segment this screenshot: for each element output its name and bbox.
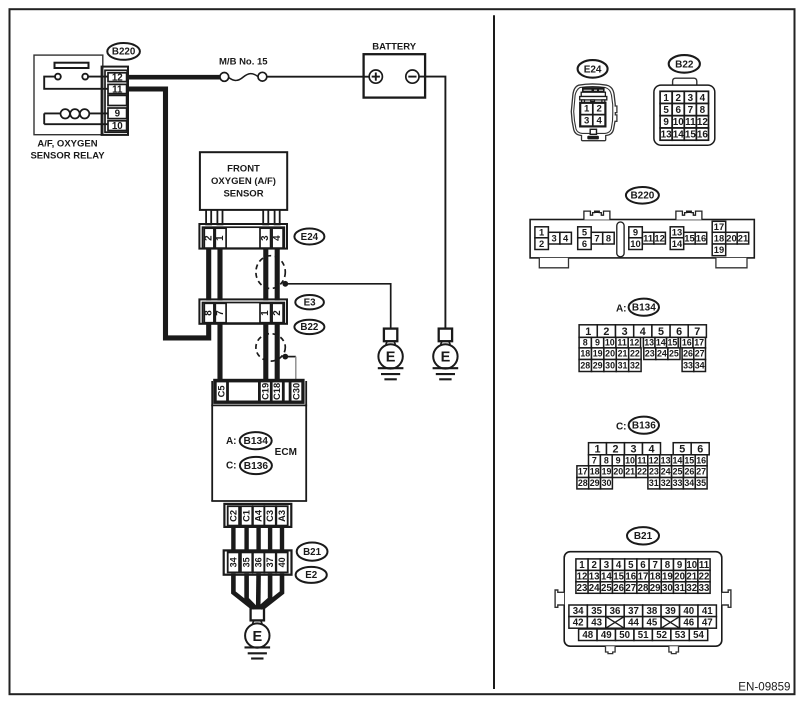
svg-text:13: 13: [661, 129, 672, 140]
svg-text:14: 14: [672, 238, 683, 249]
svg-text:6: 6: [582, 238, 587, 249]
svg-text:17: 17: [638, 571, 649, 582]
wire: B220 pin 12 to fuse (thick): [127, 75, 220, 80]
svg-text:5: 5: [628, 560, 634, 571]
svg-text:37: 37: [265, 557, 275, 567]
ECM box: [211, 381, 307, 501]
svg-text:EN-09859: EN-09859: [738, 680, 790, 693]
svg-text:B220: B220: [630, 191, 654, 202]
svg-text:28: 28: [638, 583, 649, 594]
svg-text:2: 2: [272, 310, 283, 316]
svg-text:C5: C5: [216, 385, 226, 397]
svg-text:30: 30: [602, 478, 612, 488]
svg-text:15: 15: [667, 338, 677, 348]
svg-text:34: 34: [684, 478, 694, 488]
fuse M/B No. 15: [219, 56, 268, 81]
svg-text:3: 3: [260, 235, 271, 241]
svg-text:11: 11: [699, 560, 710, 571]
svg-text:2: 2: [603, 326, 609, 338]
svg-text:3: 3: [584, 115, 589, 126]
svg-text:4: 4: [648, 443, 654, 455]
svg-text:5: 5: [663, 105, 669, 116]
ECM labels A: B134 C: B136 ECM: [226, 436, 237, 447]
svg-text:32: 32: [630, 361, 640, 371]
B22 face pin grid 1-16: [660, 91, 708, 140]
svg-text:27: 27: [695, 349, 705, 359]
svg-text:18: 18: [590, 467, 600, 477]
svg-text:12: 12: [629, 338, 639, 348]
svg-text:28: 28: [580, 361, 590, 371]
relay label: [30, 138, 105, 161]
svg-text:7: 7: [653, 560, 658, 571]
svg-text:11: 11: [685, 117, 696, 128]
svg-text:29: 29: [650, 583, 661, 594]
label C: B136: [616, 422, 627, 433]
svg-text:B22: B22: [300, 322, 319, 333]
svg-text:3: 3: [604, 560, 610, 571]
svg-text:54: 54: [693, 630, 704, 641]
svg-text:21: 21: [625, 467, 635, 477]
connector face B21 body: [555, 552, 731, 654]
svg-text:1: 1: [579, 560, 585, 571]
svg-text:2: 2: [539, 238, 544, 249]
svg-text:1: 1: [215, 235, 226, 241]
svg-text:46: 46: [683, 618, 694, 629]
svg-text:4: 4: [272, 235, 283, 241]
svg-text:44: 44: [628, 618, 639, 629]
svg-text:37: 37: [628, 606, 639, 617]
svg-text:22: 22: [630, 349, 640, 359]
connector label E24 face label: [578, 60, 608, 78]
svg-text:31: 31: [649, 478, 659, 488]
svg-text:FRONT: FRONT: [227, 163, 260, 174]
svg-text:10: 10: [686, 560, 697, 571]
svg-text:22: 22: [699, 571, 710, 582]
svg-text:49: 49: [601, 630, 612, 641]
svg-text:B134: B134: [244, 436, 269, 447]
svg-text:20: 20: [605, 349, 615, 359]
wires: E3/B22 to ECM (thick): [220, 323, 277, 381]
svg-text:8: 8: [604, 455, 609, 465]
wires: ECM to B21/E2 (5 thick): [233, 527, 282, 551]
divider line: [493, 15, 495, 689]
svg-text:13: 13: [644, 338, 654, 348]
svg-text:25: 25: [673, 467, 683, 477]
svg-text:26: 26: [684, 467, 694, 477]
svg-text:11: 11: [637, 455, 646, 465]
svg-text:17: 17: [714, 221, 724, 232]
svg-text:31: 31: [618, 361, 628, 371]
connector label B220: [107, 43, 140, 60]
svg-text:1: 1: [584, 104, 590, 115]
ground E (ECM grounds): [245, 608, 271, 658]
svg-text:24: 24: [657, 349, 667, 359]
relay: A/F oxygen sensor relay: [34, 55, 108, 135]
svg-text:16: 16: [697, 129, 708, 140]
svg-text:18: 18: [650, 571, 661, 582]
svg-text:B136: B136: [244, 461, 269, 472]
svg-text:19: 19: [662, 571, 673, 582]
wire: shield 2 drain to ECM C30: [288, 357, 296, 381]
svg-text:14: 14: [601, 571, 612, 582]
svg-text:35: 35: [696, 478, 706, 488]
svg-text:2: 2: [612, 443, 618, 455]
svg-text:40: 40: [277, 557, 287, 567]
svg-text:A:: A:: [616, 304, 627, 315]
wire: B220 pin 11 down to connector E3/B22 pin 8 (thick): [127, 89, 209, 338]
svg-text:C3: C3: [265, 510, 275, 522]
svg-text:9: 9: [677, 560, 683, 571]
svg-text:5: 5: [658, 326, 664, 338]
svg-text:2: 2: [204, 235, 215, 241]
svg-text:8: 8: [665, 560, 671, 571]
svg-text:51: 51: [638, 630, 649, 641]
svg-text:OXYGEN (A/F): OXYGEN (A/F): [211, 176, 276, 187]
svg-text:6: 6: [697, 443, 703, 455]
svg-text:4: 4: [563, 232, 569, 243]
svg-text:B220: B220: [112, 47, 136, 58]
svg-text:3: 3: [630, 443, 636, 455]
svg-text:43: 43: [591, 618, 602, 629]
svg-text:B21: B21: [634, 531, 653, 542]
svg-text:1: 1: [539, 227, 544, 238]
svg-text:22: 22: [637, 467, 647, 477]
svg-text:ECM: ECM: [275, 447, 297, 458]
svg-text:24: 24: [661, 467, 671, 477]
document number EN-09859: [738, 680, 790, 693]
svg-text:3: 3: [551, 232, 556, 243]
svg-text:E: E: [386, 350, 396, 366]
svg-text:26: 26: [683, 349, 693, 359]
connector face B136 pin grid: [577, 443, 709, 489]
front oxygen (A/F) sensor: [200, 152, 287, 210]
svg-text:12: 12: [697, 117, 708, 128]
svg-text:6: 6: [675, 105, 681, 116]
svg-text:28: 28: [578, 478, 588, 488]
svg-text:3: 3: [622, 326, 628, 338]
svg-text:A:: A:: [226, 436, 237, 447]
svg-text:C:: C:: [226, 461, 237, 472]
svg-text:18: 18: [714, 232, 724, 243]
battery: [364, 42, 426, 98]
svg-text:26: 26: [613, 583, 624, 594]
svg-text:8: 8: [583, 338, 588, 348]
svg-text:M/B No. 15: M/B No. 15: [219, 56, 268, 67]
svg-text:14: 14: [656, 338, 666, 348]
svg-text:47: 47: [702, 618, 713, 629]
svg-text:C18: C18: [272, 383, 282, 400]
svg-text:41: 41: [702, 606, 713, 617]
svg-text:9: 9: [663, 117, 669, 128]
svg-text:1: 1: [594, 443, 600, 455]
svg-text:15: 15: [684, 232, 694, 243]
svg-text:33: 33: [699, 583, 710, 594]
svg-text:E2: E2: [305, 570, 318, 581]
svg-text:29: 29: [593, 361, 603, 371]
svg-text:48: 48: [582, 630, 593, 641]
svg-text:1: 1: [260, 310, 271, 316]
connector label E2: [296, 567, 327, 583]
svg-text:10: 10: [112, 121, 123, 132]
svg-text:11: 11: [617, 338, 626, 348]
svg-text:38: 38: [647, 606, 658, 617]
svg-text:A/F, OXYGEN: A/F, OXYGEN: [37, 138, 97, 149]
svg-text:19: 19: [593, 349, 603, 359]
svg-text:20: 20: [726, 232, 736, 243]
wire stubs sensor to E24: [206, 210, 280, 225]
svg-text:25: 25: [669, 349, 679, 359]
svg-text:13: 13: [672, 227, 682, 238]
svg-text:2: 2: [597, 104, 602, 115]
ECM top connector strip (C5 C19 C18 C30): [214, 380, 303, 403]
svg-text:6: 6: [640, 560, 646, 571]
svg-text:A4: A4: [254, 509, 264, 522]
svg-text:32: 32: [661, 478, 671, 488]
svg-text:35: 35: [242, 557, 252, 567]
svg-text:23: 23: [645, 349, 655, 359]
svg-text:18: 18: [580, 349, 590, 359]
svg-text:E3: E3: [304, 298, 317, 309]
svg-text:E: E: [252, 629, 262, 645]
connector label E24 left: [294, 229, 324, 245]
svg-text:10: 10: [605, 338, 615, 348]
connector label B136 face label: [629, 417, 659, 434]
svg-text:5: 5: [679, 443, 685, 455]
svg-text:36: 36: [254, 557, 264, 567]
svg-text:8: 8: [606, 232, 611, 243]
svg-text:8: 8: [700, 105, 706, 116]
svg-text:32: 32: [686, 583, 697, 594]
svg-text:30: 30: [605, 361, 615, 371]
svg-text:12: 12: [112, 73, 123, 84]
svg-text:E24: E24: [301, 232, 319, 243]
svg-text:20: 20: [613, 467, 623, 477]
B220 face pin cells: [535, 221, 749, 256]
svg-text:7: 7: [215, 310, 226, 316]
ground E (shield): [378, 329, 404, 380]
connector face B220 body: [530, 211, 754, 268]
svg-text:19: 19: [602, 467, 612, 477]
E24 face pin grid 1 2 / 3 4: [580, 103, 605, 127]
E24 face bottom tab: [587, 129, 599, 139]
svg-text:36: 36: [610, 606, 621, 617]
svg-text:15: 15: [613, 571, 624, 582]
svg-text:10: 10: [630, 238, 640, 249]
svg-text:16: 16: [696, 455, 706, 465]
shield (twisted pair) dashed oval 1: [256, 256, 288, 289]
svg-text:10: 10: [625, 455, 635, 465]
wires: E24 to E3/B22 (4 thick): [209, 249, 278, 301]
svg-text:35: 35: [591, 606, 602, 617]
connector label B21 left: [297, 543, 328, 561]
svg-text:34: 34: [573, 606, 584, 617]
svg-text:34: 34: [228, 557, 238, 567]
svg-text:21: 21: [738, 232, 748, 243]
svg-text:13: 13: [661, 455, 671, 465]
wire: battery minus to ground: [419, 77, 445, 329]
connector label B136 ecm: [240, 457, 272, 474]
svg-text:B134: B134: [632, 303, 656, 314]
svg-text:7: 7: [592, 455, 597, 465]
svg-text:7: 7: [594, 232, 599, 243]
wire: fuse to battery: [267, 76, 370, 78]
svg-text:12: 12: [654, 232, 664, 243]
connector E24 strip (pins 2 1 3 4): [199, 224, 287, 249]
svg-text:13: 13: [589, 571, 600, 582]
connector E3/B22 strip (pins 8 7 1 2): [199, 299, 287, 323]
svg-text:50: 50: [619, 630, 630, 641]
B21 face upper pin grid 1-33: [576, 559, 710, 594]
svg-text:C1: C1: [242, 510, 252, 522]
connector label B22 left: [294, 320, 324, 334]
connector label B21 face label: [627, 527, 659, 544]
svg-text:1: 1: [585, 326, 591, 338]
svg-text:9: 9: [115, 109, 121, 120]
svg-text:A3: A3: [277, 510, 287, 522]
svg-text:SENSOR: SENSOR: [223, 189, 263, 200]
svg-text:11: 11: [643, 232, 653, 243]
shield (twisted pair) dashed oval 2: [256, 334, 288, 361]
svg-text:19: 19: [714, 244, 724, 255]
svg-text:9: 9: [595, 338, 600, 348]
svg-text:3: 3: [688, 93, 694, 104]
svg-text:14: 14: [672, 455, 682, 465]
wire: shield 1 drain to ground: [288, 284, 391, 329]
svg-text:17: 17: [578, 467, 588, 477]
svg-text:39: 39: [665, 606, 676, 617]
svg-text:4: 4: [616, 560, 622, 571]
svg-text:9: 9: [616, 455, 621, 465]
svg-text:11: 11: [112, 84, 123, 95]
connector B220 pin block (pins 12 11 9 10): [102, 67, 128, 135]
svg-text:25: 25: [601, 583, 612, 594]
svg-text:20: 20: [674, 571, 685, 582]
svg-text:2: 2: [675, 93, 681, 104]
connector face B134 pin grid: [579, 325, 706, 372]
svg-text:E24: E24: [584, 64, 602, 75]
svg-text:BATTERY: BATTERY: [372, 42, 416, 53]
connector face E24 body: [571, 84, 617, 141]
svg-text:17: 17: [694, 338, 704, 348]
connector B21/E2 strip (pins 34 35 36 37 40): [224, 550, 292, 574]
svg-text:40: 40: [683, 606, 694, 617]
B21 face lower pin grid 34-54: [569, 605, 717, 641]
svg-text:7: 7: [688, 105, 694, 116]
svg-text:12: 12: [577, 571, 588, 582]
ground E (battery): [433, 329, 459, 380]
svg-text:C:: C:: [616, 422, 627, 433]
svg-text:27: 27: [696, 467, 706, 477]
svg-text:21: 21: [618, 349, 628, 359]
svg-text:27: 27: [625, 583, 636, 594]
connector label B22 face label: [669, 55, 700, 73]
svg-text:10: 10: [673, 117, 684, 128]
svg-text:53: 53: [675, 630, 686, 641]
svg-text:B21: B21: [303, 547, 322, 558]
svg-text:1: 1: [663, 93, 669, 104]
svg-text:12: 12: [649, 455, 659, 465]
connector label B134 ecm: [240, 432, 272, 449]
svg-text:8: 8: [204, 310, 215, 316]
svg-text:4: 4: [700, 93, 706, 104]
svg-text:5: 5: [582, 227, 587, 238]
svg-text:30: 30: [662, 583, 673, 594]
E24 face latch detail: [580, 88, 607, 103]
svg-text:4: 4: [597, 115, 603, 126]
svg-text:B22: B22: [675, 59, 694, 70]
svg-text:52: 52: [656, 630, 667, 641]
label A: B134: [616, 304, 627, 315]
svg-text:4: 4: [640, 326, 646, 338]
svg-text:9: 9: [633, 227, 638, 238]
ECM bottom connector strip (C2 C1 A4 C3 A3): [224, 504, 291, 527]
svg-text:15: 15: [684, 455, 694, 465]
svg-text:42: 42: [573, 618, 584, 629]
svg-text:C2: C2: [228, 510, 238, 522]
svg-text:2: 2: [592, 560, 597, 571]
svg-text:15: 15: [685, 129, 696, 140]
svg-text:21: 21: [686, 571, 697, 582]
svg-text:29: 29: [590, 478, 600, 488]
svg-text:B136: B136: [632, 421, 656, 432]
svg-text:16: 16: [682, 338, 692, 348]
svg-text:C30: C30: [291, 383, 301, 400]
svg-text:23: 23: [577, 583, 588, 594]
svg-text:16: 16: [625, 571, 636, 582]
connector label E3: [295, 295, 324, 309]
svg-text:34: 34: [695, 361, 705, 371]
svg-text:45: 45: [647, 618, 658, 629]
svg-text:14: 14: [673, 129, 684, 140]
svg-text:31: 31: [674, 583, 685, 594]
svg-text:6: 6: [676, 326, 682, 338]
svg-text:SENSOR RELAY: SENSOR RELAY: [30, 150, 105, 161]
svg-text:23: 23: [649, 467, 659, 477]
svg-text:E: E: [441, 350, 451, 366]
svg-text:16: 16: [696, 232, 706, 243]
svg-text:33: 33: [673, 478, 683, 488]
connector label B134 face label: [629, 299, 659, 316]
connector face B22 body: [654, 78, 715, 145]
svg-text:24: 24: [589, 583, 600, 594]
svg-text:C19: C19: [260, 383, 270, 400]
svg-text:33: 33: [683, 361, 693, 371]
wires: funnel to ground: [233, 573, 282, 608]
svg-text:7: 7: [694, 326, 700, 338]
connector label B220 face label: [626, 187, 659, 204]
